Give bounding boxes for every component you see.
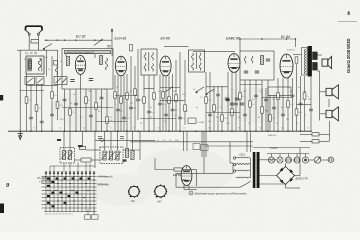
trimmer capacitor bbox=[36, 77, 44, 85]
speck below bus bbox=[57, 139, 61, 141]
misc value labels bbox=[24, 57, 311, 125]
capacitor C45 bbox=[123, 159, 127, 161]
wire top rail left bbox=[45, 39, 113, 41]
wire speaker link bbox=[328, 99, 330, 107]
note circled 1 bbox=[189, 191, 247, 195]
wire left rail bbox=[17, 49, 58, 51]
switch S2 bbox=[94, 39, 103, 46]
IF transformer 1 bbox=[141, 49, 157, 75]
power transformer primary terminals bbox=[233, 157, 235, 172]
EF89 stage wires bbox=[160, 52, 185, 131]
pilot lamp L2 bbox=[277, 157, 283, 163]
band switch bbox=[44, 44, 53, 49]
switch bank top contacts bbox=[45, 172, 95, 175]
tube EF89 bbox=[160, 56, 171, 76]
labels below bus2 bbox=[157, 134, 277, 142]
tube EC92 bbox=[75, 56, 85, 75]
grid pointer lines bbox=[97, 176, 109, 178]
dial knob U46 bbox=[128, 185, 141, 198]
wire heater drop bbox=[186, 131, 188, 151]
bus 2 bbox=[130, 141, 253, 143]
header rule bbox=[338, 20, 357, 22]
trimmer capacitor bbox=[54, 77, 67, 85]
jack socket bbox=[302, 157, 308, 163]
speck below bus bbox=[78, 145, 83, 147]
wire transformer feed bbox=[246, 131, 248, 152]
fuse holder F1 bbox=[285, 157, 291, 163]
interconnect wires bbox=[20, 85, 311, 122]
trimmer capacitor bbox=[25, 77, 35, 85]
wire ground drop bbox=[19, 50, 21, 133]
ground bus bbox=[8, 130, 311, 132]
power transformer primary windings bbox=[236, 157, 251, 178]
dial knob U47 bbox=[154, 184, 168, 198]
fuse holder F2 bbox=[294, 157, 300, 163]
switch bank actuated contacts bbox=[47, 178, 91, 208]
tone switch contacts bbox=[196, 87, 244, 105]
scan grain bbox=[0, 0, 1, 1]
heater wire bbox=[205, 145, 253, 147]
tube ECH81 bbox=[115, 56, 126, 76]
scan shading blobs bbox=[137, 148, 233, 196]
pilot resistor bbox=[99, 138, 105, 141]
mains lead wires bbox=[176, 131, 240, 187]
rail to EABC80 bbox=[193, 51, 235, 53]
antenna matching box bbox=[31, 40, 39, 43]
capacitor C61 bbox=[120, 137, 124, 139]
detector coils bbox=[244, 56, 270, 73]
wire EF89 grid rail bbox=[164, 45, 189, 47]
bus 3 bbox=[253, 147, 310, 149]
wire transformer feed bbox=[250, 131, 252, 152]
output transformer windings left bbox=[302, 48, 308, 76]
resistor R38 bbox=[188, 118, 196, 124]
switch bank left ticks bbox=[42, 177, 45, 209]
resistor R31 bbox=[81, 158, 91, 162]
speaker LS2 bbox=[326, 85, 338, 99]
wire net labels bbox=[33, 128, 309, 130]
wire heater drop bbox=[201, 131, 203, 157]
wire pot feeds bbox=[64, 131, 140, 168]
switch S3 bbox=[165, 87, 173, 93]
left stage vertical wires bbox=[27, 50, 58, 131]
tube EM80 bbox=[181, 166, 192, 186]
pilot lamp L1 bbox=[268, 157, 274, 163]
rectifier wires bbox=[286, 148, 301, 189]
speaker LS1 bbox=[322, 56, 332, 68]
scan mark left bottom bbox=[0, 204, 4, 214]
potentiometer cluster treble bbox=[100, 147, 123, 164]
EL84 stage wires bbox=[262, 64, 311, 131]
tube EABC80 bbox=[228, 54, 240, 73]
IF transformer 2 bbox=[189, 50, 205, 72]
tube ECH81 riser bbox=[111, 29, 113, 56]
resistor R5 bbox=[54, 61, 58, 66]
ground bbox=[18, 133, 23, 139]
resistor R9 bbox=[130, 45, 133, 51]
UKW tuner box bbox=[62, 49, 113, 90]
heater junction box bbox=[201, 145, 209, 151]
wire heater drop bbox=[205, 131, 207, 157]
mains switch bbox=[240, 184, 247, 188]
resistor R34 bbox=[125, 149, 134, 160]
capacitor C8 bbox=[107, 46, 111, 48]
component value labels bbox=[29, 95, 309, 122]
switch bank contact marks bbox=[45, 176, 94, 205]
resistor R30 bbox=[80, 146, 86, 149]
tube EL84 bbox=[280, 54, 293, 78]
earth socket bbox=[328, 157, 333, 162]
detector box bbox=[240, 51, 274, 80]
small components on drop wires bbox=[25, 89, 313, 123]
resistor R44 bbox=[293, 55, 302, 64]
wire heater drop bbox=[183, 131, 185, 151]
antenna coil assembly bbox=[25, 56, 67, 85]
EM80 pin wires bbox=[184, 185, 197, 190]
wire to LS1 bbox=[317, 54, 322, 56]
capacitor C60 bbox=[98, 137, 102, 139]
speaker feed risers bbox=[320, 71, 326, 121]
scan mark left middle bbox=[0, 95, 3, 101]
bridge rectifier B250C75 bbox=[277, 167, 295, 185]
coil L3 bbox=[55, 66, 57, 74]
dipole antenna bbox=[26, 26, 43, 35]
top rail right bbox=[240, 38, 296, 40]
potentiometer cluster bass bbox=[60, 148, 75, 164]
speaker filter caps bbox=[300, 121, 330, 143]
ECH81 stage wires bbox=[115, 49, 138, 131]
wire below bus bbox=[95, 139, 155, 141]
power transformer core bbox=[253, 152, 256, 188]
EABC80 stage drop wires bbox=[206, 72, 268, 131]
wire to EM80 bbox=[155, 158, 197, 186]
UKW stage drop wires bbox=[65, 89, 108, 131]
output transformer secondary bbox=[313, 52, 318, 70]
IF1 drop wires bbox=[144, 75, 154, 131]
lamp row top rail bbox=[267, 154, 309, 157]
feedback network box bbox=[268, 87, 291, 96]
keyboard switch bank grid bbox=[44, 174, 97, 212]
speaker LS3 bbox=[326, 107, 338, 121]
grid bottom labels bbox=[85, 210, 99, 220]
wires pots to switch bank bbox=[50, 162, 95, 172]
transformer secondary leads bbox=[247, 160, 286, 184]
resistor R40 bbox=[174, 168, 182, 171]
UKW box internals bbox=[66, 54, 108, 89]
heater junction box bbox=[193, 144, 200, 150]
phono jack bbox=[309, 157, 328, 163]
antenna lead wires bbox=[28, 35, 30, 50]
output transformer core bbox=[308, 46, 312, 77]
